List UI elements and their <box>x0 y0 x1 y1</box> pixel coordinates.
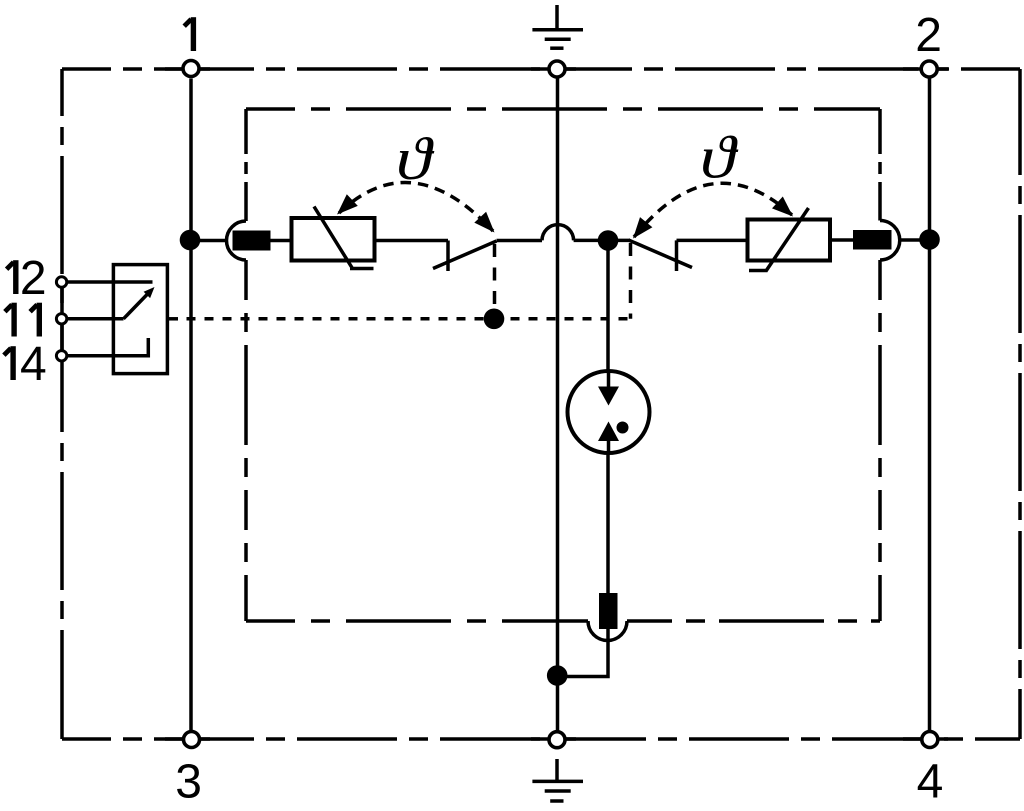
left thermal switch blade <box>433 241 497 269</box>
varistor RV1 body <box>292 218 375 261</box>
junction node on centre earth conductor <box>547 665 568 686</box>
bottom earth symbol <box>555 759 559 780</box>
label 14 <box>10 346 15 380</box>
terminal 2 <box>921 61 937 77</box>
inner protection-circuit border right <box>878 109 882 221</box>
varistor RV2 body <box>748 220 831 261</box>
terminal 12 circle <box>56 277 66 287</box>
junction node on line-2 <box>919 229 940 250</box>
terminal 11 circle <box>56 314 66 324</box>
wire: centre earth conductor from top earth terminal to bottom earth terminal <box>556 79 560 731</box>
wire from node on line-1 into left disconnector <box>190 239 227 243</box>
svg-text:4: 4 <box>20 338 47 391</box>
arrowhead to varistor RV2 <box>772 197 793 217</box>
svg-text:3: 3 <box>175 756 202 807</box>
wire right disconnector to node on line-2 <box>900 238 930 242</box>
junction node on line-1 <box>180 230 201 251</box>
earth-side thermal disconnector contact block <box>599 593 618 629</box>
outer enclosure border bottom <box>62 737 557 741</box>
changeover contact blade <box>124 293 150 319</box>
gas-filled indicator dot <box>617 422 629 434</box>
wire varistor RV2 to right disconnector <box>830 238 854 242</box>
left thermal disconnector contact block <box>233 231 271 251</box>
outer enclosure border left <box>60 69 64 739</box>
terminal 14 lead with hook <box>67 338 148 356</box>
dotted remote-signalling line from contact block <box>178 317 632 321</box>
wire node to right thermal switch blade <box>608 239 630 243</box>
inner protection-circuit border top <box>246 107 880 111</box>
label 11 <box>11 303 16 337</box>
dashed link left thermal switch to signalling line <box>493 244 497 319</box>
svg-text:4: 4 <box>917 756 944 807</box>
svg-text:2: 2 <box>915 9 942 62</box>
outer enclosure border top <box>62 67 557 71</box>
solid border joints between signalling terminals <box>60 276 64 362</box>
right thermal switch fixed contact stub <box>675 240 679 271</box>
theta symbol left <box>396 126 435 192</box>
gas discharge tube lower spark-gap electrode arrow <box>598 422 619 442</box>
bottom earth terminal <box>549 732 565 748</box>
terminal 14 circle <box>56 351 66 361</box>
wire: line-1 conductor from terminal 1 to terminal 3 <box>189 79 193 731</box>
junction node gas tube / switches <box>598 230 619 251</box>
inner protection-circuit border left <box>244 109 248 221</box>
solid border stubs at terminals <box>165 67 210 71</box>
wire varistor RV1 to left thermal switch <box>375 239 449 243</box>
gas discharge tube upper spark-gap electrode arrow <box>607 371 611 389</box>
remote signalling contact box <box>113 265 167 374</box>
wire jump arc of inner border left (disconnector crossing) <box>227 221 246 260</box>
top earth symbol <box>555 5 559 28</box>
theta symbol right <box>700 125 739 191</box>
wire node to gas discharge tube <box>606 250 610 403</box>
svg-text:ϑ: ϑ <box>700 125 739 191</box>
wire gas discharge tube to earth disconnector <box>606 453 610 593</box>
thermal coupling arc left (dashed) <box>339 182 493 231</box>
terminal 11 lead <box>67 317 124 321</box>
wire right thermal switch to varistor RV2 <box>677 239 749 243</box>
dashed link right thermal switch to signalling line <box>629 243 633 319</box>
left thermal switch fixed contact stub <box>446 241 450 272</box>
wire jump over centre conductor <box>542 225 574 241</box>
wire jump arc of inner border right (disconnector crossing) <box>880 221 900 261</box>
wire earth disconnector down and left to centre conductor <box>558 629 608 677</box>
right thermal disconnector contact block <box>853 230 892 250</box>
wire jump to node on gas tube branch <box>574 239 608 243</box>
svg-text:2: 2 <box>20 252 47 305</box>
terminal 4 <box>922 732 938 748</box>
wire: line-2 conductor from terminal 2 to terminal 4 <box>928 79 932 731</box>
junction dot on signalling line <box>484 309 505 330</box>
wire disconnector to left varistor <box>270 239 292 243</box>
wire jump arc of inner border bottom (earth disconnector crossing) <box>588 621 627 641</box>
terminal 1 <box>183 61 199 77</box>
right thermal switch blade <box>629 240 693 268</box>
signalling stub from box <box>167 317 178 321</box>
varistor RV1 diagonal stroke <box>314 207 374 269</box>
arrowhead to varistor RV1 <box>337 194 358 214</box>
arrowhead to left thermal switch <box>474 212 494 233</box>
label terminal 1 <box>191 17 196 51</box>
thermal coupling arc right (dashed) <box>634 183 792 237</box>
top earth terminal <box>549 61 565 77</box>
label 12 <box>13 260 18 294</box>
terminal 12 lead <box>67 280 153 284</box>
varistor RV2 diagonal stroke <box>749 208 809 271</box>
svg-text:ϑ: ϑ <box>396 126 435 192</box>
gas discharge tube F1 body <box>568 371 650 453</box>
terminal 3 <box>184 732 200 748</box>
wire left thermal switch to centre jump <box>497 239 543 243</box>
inner protection-circuit border bottom <box>246 619 588 623</box>
arrowhead to right thermal switch <box>633 217 652 238</box>
outer enclosure border right <box>1018 69 1022 739</box>
